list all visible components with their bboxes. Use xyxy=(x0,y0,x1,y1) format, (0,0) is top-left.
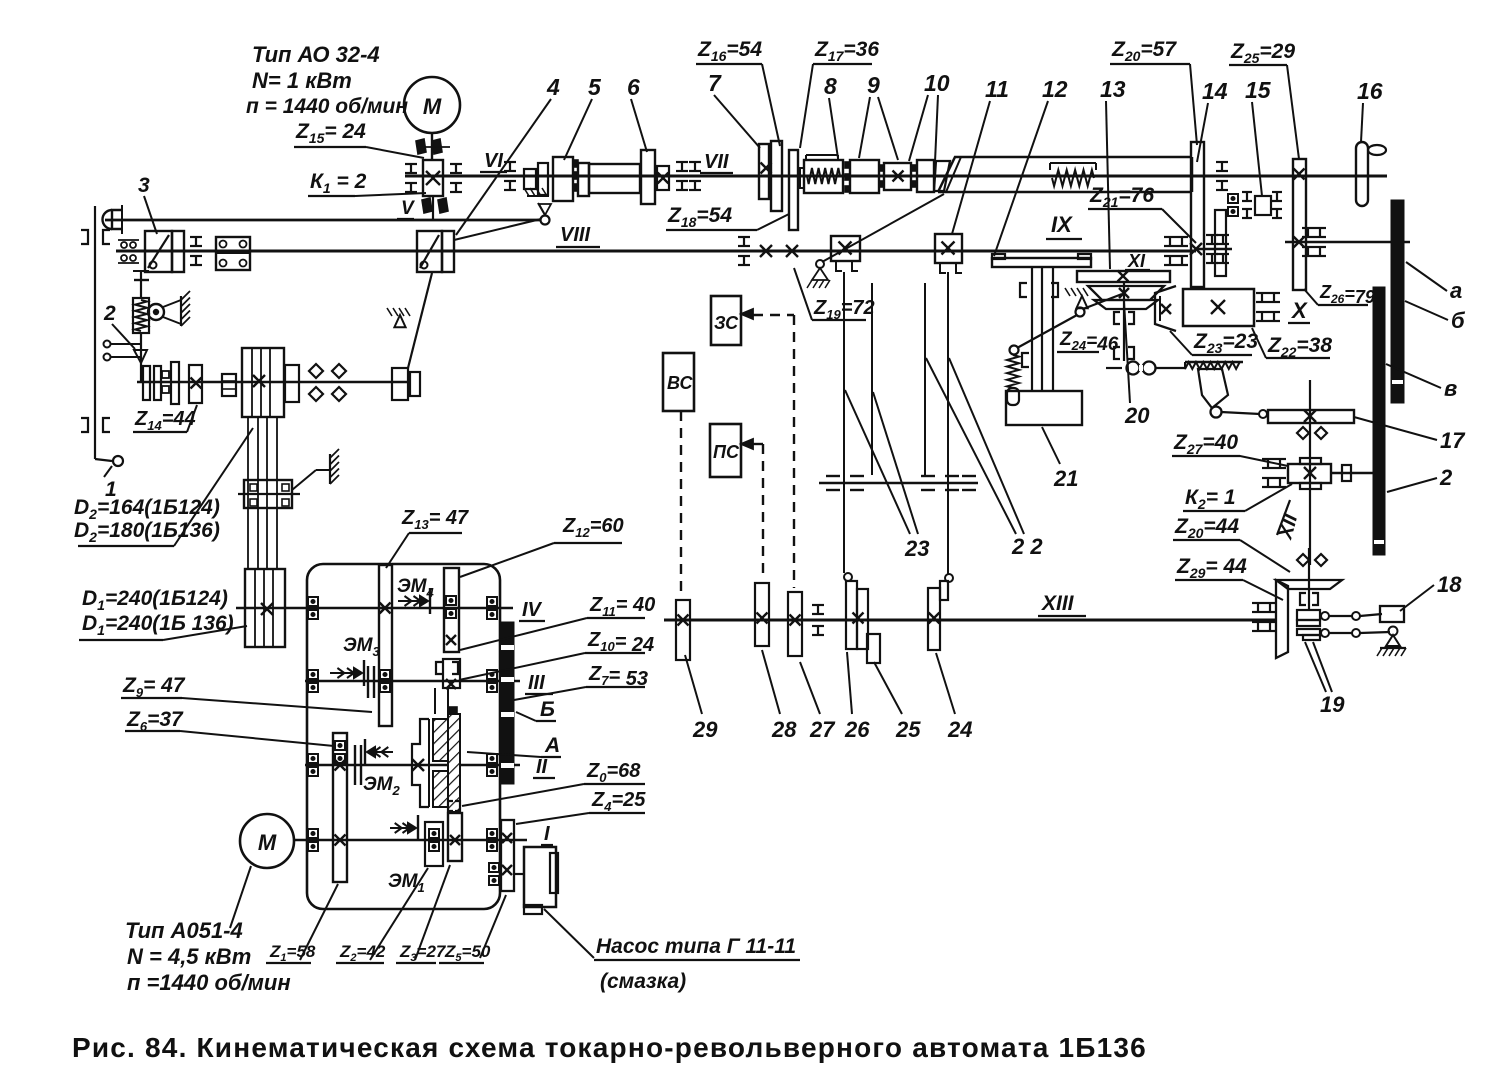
svg-text:26: 26 xyxy=(844,717,870,742)
svg-text:7: 7 xyxy=(708,70,722,96)
svg-text:D1=240(1Б 136): D1=240(1Б 136) xyxy=(82,612,234,638)
svg-text:Z13= 47: Z13= 47 xyxy=(401,507,469,532)
svg-text:п =1440 об/мин: п =1440 об/мин xyxy=(127,970,291,995)
svg-text:Z19=72: Z19=72 xyxy=(813,297,875,322)
svg-text:12: 12 xyxy=(1042,76,1068,102)
svg-text:III: III xyxy=(528,672,545,694)
svg-text:II: II xyxy=(536,756,548,778)
svg-text:X: X xyxy=(1290,298,1308,323)
svg-text:Z27=40: Z27=40 xyxy=(1173,431,1238,457)
svg-text:23: 23 xyxy=(904,536,929,561)
svg-text:Z16=54: Z16=54 xyxy=(697,38,762,64)
svg-text:3: 3 xyxy=(138,174,150,197)
svg-text:2 2: 2 2 xyxy=(1011,534,1043,559)
svg-text:6: 6 xyxy=(627,74,640,100)
svg-text:8: 8 xyxy=(824,73,837,99)
svg-text:ПС: ПС xyxy=(713,442,740,462)
svg-text:17: 17 xyxy=(1440,428,1466,453)
svg-text:Z11= 40: Z11= 40 xyxy=(589,594,655,619)
svg-text:Z1=58: Z1=58 xyxy=(269,942,316,964)
svg-text:2: 2 xyxy=(1439,465,1453,490)
svg-text:25: 25 xyxy=(895,717,921,742)
svg-text:VIII: VIII xyxy=(560,224,590,246)
svg-text:Z22=38: Z22=38 xyxy=(1267,334,1332,360)
svg-text:Насос типа Г 11-11: Насос типа Г 11-11 xyxy=(596,935,796,958)
svg-text:5: 5 xyxy=(588,74,602,100)
svg-text:Z18=54: Z18=54 xyxy=(667,204,732,230)
svg-text:VII: VII xyxy=(704,151,729,173)
svg-text:20: 20 xyxy=(1124,403,1150,428)
svg-text:М: М xyxy=(423,94,442,119)
svg-text:10: 10 xyxy=(924,70,950,96)
svg-text:Z15= 24: Z15= 24 xyxy=(295,120,366,146)
svg-text:Z20=44: Z20=44 xyxy=(1174,515,1239,541)
svg-text:М: М xyxy=(258,830,277,855)
svg-text:Z25=29: Z25=29 xyxy=(1230,40,1295,66)
svg-text:Тип А051-4: Тип А051-4 xyxy=(125,918,243,943)
svg-text:XIII: XIII xyxy=(1041,592,1075,615)
svg-text:14: 14 xyxy=(1202,78,1228,104)
svg-text:Z12=60: Z12=60 xyxy=(562,515,624,540)
svg-text:Z17=36: Z17=36 xyxy=(814,38,879,64)
svg-text:Z9= 47: Z9= 47 xyxy=(122,674,186,700)
svg-text:а: а xyxy=(1450,278,1462,303)
svg-text:ЗС: ЗС xyxy=(714,313,739,333)
svg-text:Z21=76: Z21=76 xyxy=(1089,184,1154,210)
svg-text:Z3=27: Z3=27 xyxy=(399,942,447,964)
svg-text:IX: IX xyxy=(1051,212,1073,237)
svg-text:Тип АО 32-4: Тип АО 32-4 xyxy=(252,42,380,67)
svg-text:27: 27 xyxy=(809,717,836,742)
svg-text:4: 4 xyxy=(546,74,560,100)
svg-text:Рис. 84. Кинематическая схема: Рис. 84. Кинематическая схема токарно-ре… xyxy=(72,1032,1147,1063)
svg-text:Z20=57: Z20=57 xyxy=(1111,38,1177,64)
svg-text:Z4=25: Z4=25 xyxy=(591,789,646,814)
svg-text:К1 = 2: К1 = 2 xyxy=(310,170,367,196)
svg-text:п = 1440 об/мин: п = 1440 об/мин xyxy=(246,95,408,118)
svg-text:28: 28 xyxy=(771,717,797,742)
svg-text:Z14=44: Z14=44 xyxy=(134,408,196,433)
svg-text:Z29= 44: Z29= 44 xyxy=(1176,555,1247,581)
svg-text:24: 24 xyxy=(947,717,972,742)
svg-text:16: 16 xyxy=(1357,78,1383,104)
svg-text:б: б xyxy=(1451,308,1466,333)
svg-text:9: 9 xyxy=(867,72,880,98)
svg-text:в: в xyxy=(1444,376,1457,401)
svg-text:ВС: ВС xyxy=(667,373,694,393)
svg-text:А: А xyxy=(544,734,560,757)
svg-text:I: I xyxy=(544,823,550,845)
svg-text:21: 21 xyxy=(1053,466,1078,491)
svg-text:Б: Б xyxy=(540,698,555,721)
svg-text:15: 15 xyxy=(1245,77,1272,103)
svg-text:18: 18 xyxy=(1437,572,1462,597)
svg-text:IV: IV xyxy=(522,599,543,621)
svg-text:V: V xyxy=(401,198,415,219)
svg-text:XI: XI xyxy=(1127,251,1146,271)
svg-text:29: 29 xyxy=(692,717,718,742)
svg-text:К2= 1: К2= 1 xyxy=(1185,486,1236,512)
svg-text:Z5=50: Z5=50 xyxy=(444,942,491,964)
svg-text:11: 11 xyxy=(985,76,1009,102)
svg-text:Z23=23: Z23=23 xyxy=(1193,330,1258,356)
svg-text:Z0=68: Z0=68 xyxy=(586,760,641,785)
svg-text:VI: VI xyxy=(484,150,503,172)
svg-text:(смазка): (смазка) xyxy=(600,970,686,993)
svg-text:2: 2 xyxy=(103,302,116,325)
svg-text:19: 19 xyxy=(1320,692,1345,717)
svg-text:N = 4,5 кВт: N = 4,5 кВт xyxy=(127,944,251,969)
svg-text:N= 1 кВт: N= 1 кВт xyxy=(252,68,352,93)
svg-text:13: 13 xyxy=(1100,76,1126,102)
